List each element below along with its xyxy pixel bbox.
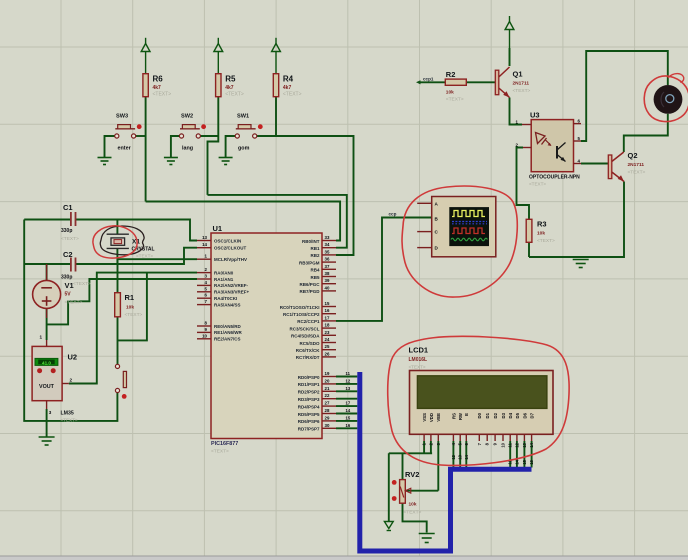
wire LCD D5 down (516, 441, 518, 468)
wire PIC RD6 to bus (336, 420, 357, 422)
wire Q2 emitter to ground line (529, 182, 624, 258)
svg-text:R3: R3 (537, 220, 547, 229)
svg-text:41.0: 41.0 (42, 360, 51, 365)
svg-text:LM016L: LM016L (409, 357, 428, 363)
svg-text:RD3/PSP3: RD3/PSP3 (298, 397, 320, 402)
svg-text:VSS: VSS (422, 413, 427, 422)
annotation red sketch around speaker (644, 76, 688, 122)
svg-text:RB0/INT: RB0/INT (302, 239, 320, 244)
svg-text:<TEXT>: <TEXT> (409, 365, 426, 370)
resistor R2 (445, 70, 466, 103)
svg-text:RC6/TX/CK: RC6/TX/CK (296, 348, 321, 353)
transistor Q1 (495, 67, 530, 98)
svg-text:V1: V1 (65, 281, 74, 290)
ground below SW2 (164, 158, 178, 165)
svg-text:10k: 10k (537, 231, 545, 237)
svg-text:10k: 10k (446, 90, 454, 96)
svg-text:27: 27 (325, 401, 330, 406)
svg-text:gom: gom (238, 146, 250, 152)
wire PIC RD2 to bus (336, 390, 357, 392)
ground below SW1 (219, 158, 233, 165)
svg-text:17: 17 (346, 401, 351, 406)
wire R1 node up to RA0 net (118, 273, 147, 341)
svg-text:37: 37 (325, 264, 330, 269)
power arrow VCC above R5 (214, 38, 223, 74)
svg-text:VDD: VDD (429, 413, 434, 422)
wire LCD D4 down (509, 441, 511, 468)
svg-text:<TEXT>: <TEXT> (529, 182, 546, 187)
svg-text:21: 21 (325, 386, 330, 391)
svg-text:29: 29 (325, 415, 330, 420)
svg-text:<TEXT>: <TEXT> (446, 97, 464, 103)
svg-text:<TEXT>: <TEXT> (211, 449, 229, 455)
annotation black sketch around crystal (100, 226, 144, 255)
switch SW1 (235, 114, 262, 152)
svg-text:RA4/T0CKI: RA4/T0CKI (214, 296, 237, 301)
wire Q1 emitter to U3 pin1 (510, 98, 523, 125)
svg-text:RC4/SDI/SDA: RC4/SDI/SDA (291, 334, 320, 339)
svg-text:RB6/PGC: RB6/PGC (299, 282, 320, 287)
svg-text:40: 40 (325, 285, 330, 290)
svg-text:4k7: 4k7 (283, 85, 292, 91)
ground below SW3 (98, 158, 112, 165)
svg-text:16: 16 (325, 308, 330, 313)
annotation red sketch around LCD (388, 336, 569, 465)
svg-text:D0: D0 (477, 412, 482, 418)
svg-text:33: 33 (325, 235, 330, 240)
svg-text:35: 35 (325, 249, 330, 254)
capacitor C2 (61, 250, 91, 287)
wire R1 top to PIC MCLR (118, 259, 198, 293)
svg-text:4k7: 4k7 (153, 85, 162, 91)
svg-text:<TEXT>: <TEXT> (283, 92, 302, 98)
svg-text:Q2: Q2 (628, 151, 638, 160)
svg-text:24: 24 (325, 337, 330, 342)
ground below R3 (573, 260, 589, 268)
annotation red sketch around oscilloscope (402, 186, 517, 297)
svg-text:14: 14 (464, 454, 469, 459)
svg-text:16: 16 (346, 423, 351, 428)
svg-text:SW1: SW1 (237, 114, 249, 120)
speaker (654, 85, 683, 114)
reset button (115, 364, 126, 399)
svg-text:RE0/AN5/RD: RE0/AN5/RD (214, 324, 242, 329)
svg-text:12: 12 (514, 442, 519, 447)
window edge strip (0, 556, 688, 560)
svg-text:2: 2 (70, 378, 73, 383)
wire C2 left (24, 263, 71, 265)
crystal X1 (107, 234, 155, 258)
svg-text:OSC1/CLKIN: OSC1/CLKIN (214, 238, 241, 243)
U1 right pins (280, 235, 351, 432)
down arrow terminal near RV2 (384, 522, 393, 531)
wire SW3 right to R6 column (136, 135, 146, 137)
wire SW1 net to PIC RB2 (257, 136, 354, 255)
svg-text:D5: D5 (515, 412, 520, 418)
wire PIC RD0 to bus (336, 376, 357, 378)
svg-text:U2: U2 (68, 353, 78, 362)
wire crystal top branch (116, 220, 118, 235)
wire C1 left (24, 219, 71, 221)
svg-text:RS: RS (451, 413, 456, 419)
svg-text:OPTOCOUPLER-NPN: OPTOCOUPLER-NPN (529, 175, 580, 181)
svg-text:RA2/AN2/VREF-: RA2/AN2/VREF- (214, 283, 249, 288)
svg-text:28: 28 (325, 408, 330, 413)
svg-text:<TEXT>: <TEXT> (225, 92, 244, 98)
wire Q2 collector to speaker bottom (624, 114, 668, 152)
svg-text:VOUT: VOUT (39, 384, 55, 390)
svg-text:36: 36 (325, 257, 330, 262)
svg-text:16: 16 (529, 459, 534, 464)
wire C1 right to OSC1 (76, 220, 198, 241)
svg-text:30: 30 (325, 423, 330, 428)
svg-text:SW2: SW2 (181, 114, 193, 120)
svg-text:RD6/PSP6: RD6/PSP6 (298, 419, 320, 424)
svg-text:RA1/AN1: RA1/AN1 (214, 277, 234, 282)
svg-text:D4: D4 (508, 412, 513, 418)
wire PIC RD7 to bus (336, 427, 357, 429)
svg-text:11: 11 (508, 442, 513, 447)
svg-text:<TEXT>: <TEXT> (136, 254, 153, 259)
wire SW2 net to PIC RB1 (208, 195, 347, 248)
resistor R1 (115, 293, 143, 318)
svg-text:D3: D3 (501, 412, 506, 418)
wire V1 top to C2 line (46, 264, 48, 280)
svg-text:13: 13 (522, 442, 527, 447)
resistor R6 (143, 74, 171, 98)
wire PIC RD1 to bus (336, 383, 357, 385)
svg-text:13: 13 (346, 386, 351, 391)
svg-text:14: 14 (529, 442, 534, 447)
wire C2 right to OSC2 (76, 248, 198, 264)
svg-text:15: 15 (522, 459, 527, 464)
svg-text:LCD1: LCD1 (409, 346, 429, 355)
svg-text:RB7/PGD: RB7/PGD (299, 289, 320, 294)
wire SW2 left to ground (171, 136, 180, 158)
svg-text:25: 25 (325, 344, 330, 349)
svg-text:RC7/RX/DT: RC7/RX/DT (296, 355, 320, 360)
LCD LCD1 LM016L (409, 346, 554, 465)
svg-text:14: 14 (202, 242, 207, 247)
wire U2 pin3 to ground (46, 409, 48, 437)
U1 left pins (197, 235, 250, 342)
svg-text:MCLR/Vpp/THV: MCLR/Vpp/THV (214, 257, 247, 262)
wire ccp net scope B to PIC RC2 (336, 218, 432, 321)
switch SW2 (179, 114, 206, 152)
ground below RV2 (419, 534, 435, 543)
svg-text:D7: D7 (530, 412, 535, 418)
sensor U2 LM35 (32, 335, 78, 423)
svg-text:15: 15 (346, 415, 351, 420)
wire R6 column down (145, 97, 147, 202)
blue bus wire (360, 372, 532, 551)
svg-text:RA3/AN3/VREF+: RA3/AN3/VREF+ (214, 290, 250, 295)
svg-text:<TEXT>: <TEXT> (73, 281, 91, 287)
wire V1 bottom to U2 pin1 (46, 308, 48, 340)
svg-text:D6: D6 (522, 412, 527, 418)
svg-text:38: 38 (325, 271, 330, 276)
svg-text:RC3/SCK/SCL: RC3/SCK/SCL (289, 326, 319, 331)
svg-text:RD5/PSP5: RD5/PSP5 (298, 412, 320, 417)
battery V1 (33, 264, 83, 318)
svg-text:RB2: RB2 (310, 253, 319, 258)
wire R4 column down (275, 97, 277, 136)
svg-text:12: 12 (346, 378, 351, 383)
svg-text:330p: 330p (61, 275, 72, 281)
wire V1 minus stair to PIC RA1 (47, 279, 197, 324)
svg-text:R4: R4 (283, 75, 294, 84)
svg-text:RE1/AN6/WR: RE1/AN6/WR (214, 330, 243, 335)
svg-text:10: 10 (501, 442, 506, 447)
optocoupler U3 (516, 111, 581, 187)
svg-text:OSC2/CLKOUT: OSC2/CLKOUT (214, 246, 247, 251)
wire ccp1 terminal to R2 (419, 81, 445, 83)
svg-text:<TEXT>: <TEXT> (61, 418, 78, 423)
svg-text:330p: 330p (61, 228, 72, 234)
resistor R3 (526, 219, 555, 244)
wire PIC RD5 to bus (336, 413, 357, 415)
svg-text:U1: U1 (213, 224, 223, 233)
resistor R4 (273, 74, 301, 98)
wire Q1 collector to VCC (509, 48, 511, 66)
svg-text:D1: D1 (485, 412, 490, 418)
svg-text:D2: D2 (493, 412, 498, 418)
power arrow VCC above Q1 (505, 16, 514, 66)
svg-text:RB3/PGM: RB3/PGM (299, 260, 320, 265)
wire U3 pin2 to R3 (517, 148, 530, 220)
svg-text:PIC16F877: PIC16F877 (211, 441, 238, 447)
svg-text:<TEXT>: <TEXT> (404, 510, 422, 516)
svg-text:RB1: RB1 (310, 246, 319, 251)
microcontroller U1 PIC16F877 (211, 224, 322, 455)
svg-text:enter: enter (118, 146, 132, 152)
wire LCD VEE to RV2 wiper (437, 441, 439, 491)
wire R5 column down (208, 97, 219, 195)
svg-text:<TEXT>: <TEXT> (537, 238, 555, 244)
svg-text:RV2: RV2 (405, 470, 419, 479)
svg-text:SW3: SW3 (116, 114, 128, 120)
power arrow VCC above R6 (141, 38, 150, 74)
resistor R5 (216, 74, 244, 98)
wire R2 to Q1 base (466, 81, 495, 83)
wire LCD E down (465, 441, 467, 468)
svg-text:RC5/SDO: RC5/SDO (299, 341, 320, 346)
wire PIC RD4 to bus (336, 405, 357, 407)
svg-text:19: 19 (325, 371, 330, 376)
ground below U2 (39, 437, 55, 445)
svg-text:Q1: Q1 (513, 70, 523, 79)
svg-text:U3: U3 (530, 111, 540, 120)
terminal ccp1 (416, 77, 434, 85)
wire R3 bottom (528, 242, 530, 257)
svg-text:C1: C1 (63, 203, 73, 212)
svg-text:RD7/PSP7: RD7/PSP7 (298, 427, 320, 432)
svg-text:LM35: LM35 (61, 411, 74, 417)
svg-text:RE2/AN7/CS: RE2/AN7/CS (214, 337, 241, 342)
svg-text:1: 1 (40, 335, 43, 340)
svg-text:RD2/PSP2: RD2/PSP2 (298, 390, 320, 395)
svg-text:14: 14 (514, 459, 519, 464)
svg-text:<TEXT>: <TEXT> (153, 92, 172, 98)
svg-text:15: 15 (325, 301, 330, 306)
svg-text:<TEXT>: <TEXT> (61, 236, 79, 242)
svg-text:ccp: ccp (389, 212, 397, 217)
wire R1 bottom node (117, 317, 119, 365)
wire left rail C1/C2 to reset button (24, 220, 117, 421)
wire SW1 left to ground (226, 136, 236, 158)
annotation red sketch around crystal (93, 226, 137, 258)
svg-text:RA5/AN4/SS: RA5/AN4/SS (214, 302, 241, 307)
svg-text:17: 17 (325, 315, 330, 320)
svg-text:<TEXT>: <TEXT> (513, 88, 531, 94)
wire rail to down arrow (388, 453, 390, 521)
switch SW3 (115, 114, 142, 152)
svg-text:13: 13 (202, 235, 207, 240)
wire U3 pin4 to Q2 base (581, 163, 608, 165)
svg-text:<TEXT>: <TEXT> (65, 300, 83, 306)
svg-text:RD1/PSP1: RD1/PSP1 (298, 382, 320, 387)
svg-text:12: 12 (451, 454, 456, 459)
svg-text:RC1/T1OSI/CCP2: RC1/T1OSI/CCP2 (283, 312, 320, 317)
svg-text:4k7: 4k7 (225, 85, 234, 91)
svg-text:26: 26 (325, 351, 330, 356)
svg-text:E: E (464, 413, 469, 416)
svg-text:R6: R6 (153, 75, 164, 84)
wire LCD D6 down (523, 441, 525, 468)
wire U2 VOUT to PIC RA0 (69, 273, 197, 384)
svg-text:RC0/T1OSO/T1CKI: RC0/T1OSO/T1CKI (280, 305, 320, 310)
wire LCD VSS down (423, 441, 425, 453)
svg-text:2N1711: 2N1711 (628, 162, 645, 168)
wire LCD supply rail (389, 452, 432, 454)
capacitor C1 (61, 203, 79, 242)
svg-text:VEE: VEE (436, 413, 441, 422)
wire SW2 right to R5 column (200, 135, 219, 137)
svg-text:R5: R5 (225, 75, 236, 84)
svg-text:10k: 10k (126, 305, 134, 311)
svg-text:RB4: RB4 (310, 268, 319, 273)
svg-text:5V: 5V (65, 292, 72, 298)
svg-text:23: 23 (325, 330, 330, 335)
svg-text:R2: R2 (446, 70, 456, 79)
svg-text:20: 20 (325, 378, 330, 383)
wire RV2 bottom to ground (403, 503, 427, 532)
svg-text:<TEXT>: <TEXT> (125, 312, 143, 318)
svg-text:R1: R1 (125, 293, 135, 302)
svg-text:10: 10 (202, 333, 207, 338)
wire RV2 wiper arm (405, 490, 438, 492)
wire LCD VDD down (430, 441, 432, 453)
svg-text:lang: lang (182, 146, 193, 152)
svg-text:ccp1: ccp1 (423, 77, 434, 82)
svg-text:13: 13 (458, 454, 463, 459)
oscilloscope (417, 197, 496, 257)
potentiometer RV2 (392, 470, 422, 516)
wire SW3 left to ground (105, 136, 115, 158)
svg-text:22: 22 (325, 393, 330, 398)
svg-text:11: 11 (346, 371, 351, 376)
svg-text:14: 14 (346, 408, 351, 413)
wire U3 pin5 to speaker top (581, 51, 668, 141)
power arrow VCC above R4 (272, 38, 281, 74)
svg-text:10k: 10k (409, 502, 417, 508)
wire crystal bottom branch (116, 248, 118, 264)
svg-text:<TEXT>: <TEXT> (628, 170, 646, 176)
transistor Q2 (608, 151, 645, 182)
svg-text:18: 18 (325, 323, 330, 328)
svg-text:RC2/CCP1: RC2/CCP1 (297, 319, 320, 324)
svg-text:34: 34 (325, 242, 330, 247)
svg-text:39: 39 (325, 278, 330, 283)
wire RV2 top (402, 453, 404, 479)
svg-text:RW: RW (458, 412, 463, 420)
svg-text:2N1711: 2N1711 (513, 81, 530, 87)
wire LCD RW down (459, 441, 461, 468)
wire SW3 net to PIC RB0 (146, 202, 341, 241)
svg-text:3: 3 (49, 410, 52, 415)
wire LCD D7 down (531, 441, 533, 468)
wire LCD RS down (452, 441, 454, 468)
svg-text:RD0/PSP0: RD0/PSP0 (298, 375, 320, 380)
wire PIC RD3 to bus (336, 398, 357, 400)
svg-text:RA0/AN0: RA0/AN0 (214, 270, 234, 275)
svg-text:RB5: RB5 (310, 275, 319, 280)
svg-text:RD4/PSP4: RD4/PSP4 (298, 404, 320, 409)
